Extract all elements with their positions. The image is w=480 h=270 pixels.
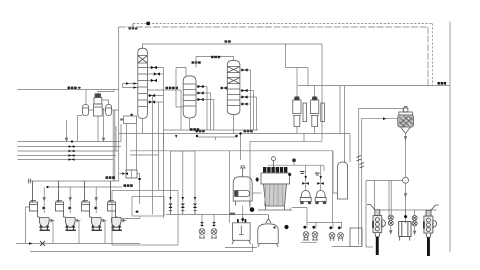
T1 takeoff y80.5 with valve [147,80,157,82]
reactor unit 1 feeder box [30,181,38,211]
T1 reboiler feed arrow [120,118,124,120]
trap S2 [213,215,215,228]
wire bottom collection line y243.5 [16,243,140,245]
label on T1 y90 line [166,87,179,89]
valve on line 2 [69,145,75,148]
pressure gauge on y152 [292,158,296,162]
wire long vertical from overhead to y152 [321,44,323,141]
label on header 2 [124,184,133,187]
dome tank T6 [258,215,278,247]
T3 takeoff y70 valve [240,70,251,130]
wire x340 drop from y85 [340,86,350,163]
instrument square on dashed header [147,22,150,25]
wire pump feed loop [268,165,324,190]
crystallizer CR1 [258,167,292,210]
CF1 discharge bar [376,237,379,255]
wire drop into vessel V5 [313,86,316,101]
unit 3 outlet valve [101,219,107,222]
wire secondary header y130 [164,129,259,131]
wire reboiler down [126,124,128,171]
silo V6 [338,162,348,199]
wire left drop to collection [26,207,30,244]
unit 4 outlet valve [121,219,127,222]
T3 feed valve left [221,87,228,89]
valve diamond left of crystallizer [255,177,259,182]
wire distribution line 5 [18,159,114,161]
RV1 outlet arrow [390,226,392,234]
rotary valve RV2 [412,216,417,226]
wire top dashed header [133,24,432,86]
label T3 bottoms [244,130,253,133]
wire drip legs header [171,150,196,152]
wire P3 to box B1 [404,183,406,223]
T1 takeoff y95.5 with valve [147,95,163,97]
label above T2 [192,61,201,63]
vessel V5 [311,97,325,126]
wire right big box frame [366,181,403,248]
inner tank box [132,197,164,217]
T1 area small component box [126,170,137,178]
wire F1 feed lower with arrow [362,119,398,245]
valve diamond near inner box [135,210,139,213]
T2 takeoff y93 valve [196,93,211,130]
T1 feed arrows left [123,84,138,88]
wire stripper connections [86,90,119,111]
column T2 overhead to reflux [176,68,186,108]
valve on line 5 [69,158,75,161]
wire base under SP1 SP2 [301,241,317,243]
tick mark on header [175,135,177,138]
wire unit 1 drop [52,221,54,244]
T1 reboiler box [124,116,137,124]
wire x250 drop to crystallizer base [249,141,251,208]
RV2 outlet arrow [413,226,415,234]
crystallizer top gauge [273,161,275,168]
wire bottom-right top header [375,209,437,211]
CF2 discharge bar [427,238,430,257]
wire stripper bottoms down [78,116,99,142]
wire distribution line 4 [18,155,117,157]
wire x229.5 vertical [229,151,231,223]
arrow onto line1 right [102,108,104,141]
unit 1 feed valve drop [43,187,45,213]
wire V4 V5 bottoms to y133 [297,127,315,134]
wire reactors header 1 [29,180,119,182]
wire inner verticals of big box [375,181,392,216]
trap S1 [201,215,203,228]
wire T3 bottom stub [233,115,235,134]
T1 side line to label y90 [147,90,181,130]
wire lower header y214.5 [166,214,268,216]
small label on header [230,213,236,215]
small pump SP4 [341,223,343,229]
valve on line 3 [69,150,75,153]
wire risers from lines to T1 area [113,110,121,181]
wire reactors header 2 [47,186,122,188]
stripper unit center vessel [94,94,103,116]
pump P2 [315,191,326,204]
label on header 1 [106,176,115,179]
label T2 bottoms [196,130,205,133]
wire R1 to crystallizer [252,192,261,194]
valve left of component box [122,172,128,175]
stripper right pump [106,105,112,116]
squiggle labels above pumps [300,171,320,176]
reactor unit 2 kettle [64,211,77,230]
label near right header ends [438,82,447,85]
wire R1 bottom drop with valve [242,206,244,223]
small pump SP2 [315,223,317,229]
wire drip leg 3 [194,151,196,203]
valve dot above B1 [404,215,407,218]
wire T1 right vertical x163.5 [163,68,165,219]
wire right edge vertical [449,22,451,252]
wire SP bottoms to tank T7 [332,246,350,248]
label on T3 overhead [211,56,220,58]
T2 takeoff y86.5 valve [196,87,207,131]
wire x344.5 drop from y85 [344,86,346,164]
wire top solid header [119,27,428,86]
wire mid horizontal y85 [298,85,450,87]
R1 vent stub with cap [240,166,246,177]
centrifuge CF1 [367,205,385,237]
wire F1 outlet to pump P3 [404,134,406,178]
wire T1 bottom stub [137,119,143,171]
wire mid-left feed line y89 [18,89,119,91]
filter F1 hatched vessel [398,112,414,134]
wire unit 3 drop [104,221,106,244]
wire component box connections [120,170,140,204]
centrifuge CF2 [424,205,439,237]
tank T5 top valve labels [237,219,246,222]
wire long line y150.8 [130,151,333,223]
wire pump pair feed line y222.5 [307,222,342,224]
header1 end tick [28,179,30,184]
valve on line 4 [69,154,75,157]
rotary valve RV1 [388,215,393,225]
arrow onto line1 left [65,120,67,141]
small pump SP3 [332,223,334,229]
junction dot on line 1 [71,140,73,142]
reactor unit 4 feeder box [108,181,116,211]
wire drops from bottom-right header [406,210,415,216]
wire feed to R1 from header [240,134,242,161]
wire drip leg 2 [182,151,184,203]
wire unit 2 drop [78,221,80,244]
column T1 overhead line [143,44,323,48]
reactor unit 2 feeder box [56,181,64,211]
T3 takeoff y104 valve [240,103,250,105]
wire bottom long line y251.5 [30,244,253,252]
junction dot [250,207,255,212]
wire tee drop to vessels [286,44,309,86]
label on T1 overhead [225,40,231,42]
arrow on collection line [29,242,33,245]
label on header y130 [190,128,199,131]
column T2 shell [183,76,196,118]
wire unit4 piping inside enclosure [121,216,140,219]
valve dot at T1 bottom left [130,114,132,116]
unit 2 feed valve drop [69,187,71,213]
wire distribution line 2 [18,146,122,148]
cross valve on collection line [40,241,45,246]
reactor R1 dome vessel [233,177,252,206]
tank T5 [232,223,251,244]
unit 1 outlet valve [49,219,55,222]
label on feed line [68,87,82,89]
reactor unit 1 kettle [38,211,51,230]
small pump SP1 [306,223,308,229]
wire T1 bottoms right verticals [130,96,159,215]
stripper left pump [83,105,89,116]
wire header x350 drop [333,151,338,193]
valve tap on header [132,24,134,28]
reactor unit 3 feeder box [82,181,90,211]
wire under-column header y137.5 [197,137,237,140]
F1 top cap [404,107,408,113]
tank T7 [350,228,362,247]
unit 3 feed valve drop [95,187,97,213]
T1 takeoff y67.5 with valve [147,67,163,69]
column T3 overhead line [196,57,234,68]
wire F1 feed upper [359,109,403,246]
vessel V4 [293,97,307,126]
wire distribution line 1 [18,141,122,143]
wire T2 bottom stub [189,118,191,130]
enclosure box bottom mid [112,191,178,246]
T1 takeoff y74 with valve [147,73,163,75]
valve right of component box [138,178,142,181]
column T3 shell [227,60,240,114]
break marks on F1 feed risers [357,156,365,169]
wire right section line y152 [250,134,322,142]
reactor unit 3 kettle [90,211,103,230]
pump P3 circle [403,177,409,183]
column T1 shell [138,48,148,118]
valve dot right of crystallizer [288,173,291,176]
T2 takeoff y99.5 valve [196,100,214,131]
reactor unit 4 kettle [111,211,122,230]
label tag on header tap [129,28,138,30]
arrows and valves on pump feeds [305,176,322,179]
wire bottoms header y133 [119,133,350,135]
box B1 [399,222,411,241]
T3 takeoff y97 valve [240,97,257,130]
wire left bus vertical [118,27,120,181]
T1 takeoff y102 with valve [147,101,163,103]
wire drop into vessel V4 [296,68,299,101]
junction dot header 2 [46,186,48,188]
wire vertical x163 bottom [163,134,165,152]
T3 takeoff y90.5 valve [240,91,254,131]
unit 2 outlet valve [75,219,81,222]
pump P1 [300,191,311,204]
wire distribution line 3 [18,150,119,152]
wire crystallizer base to pump line [290,208,307,223]
wire drip leg 1 [170,151,172,203]
